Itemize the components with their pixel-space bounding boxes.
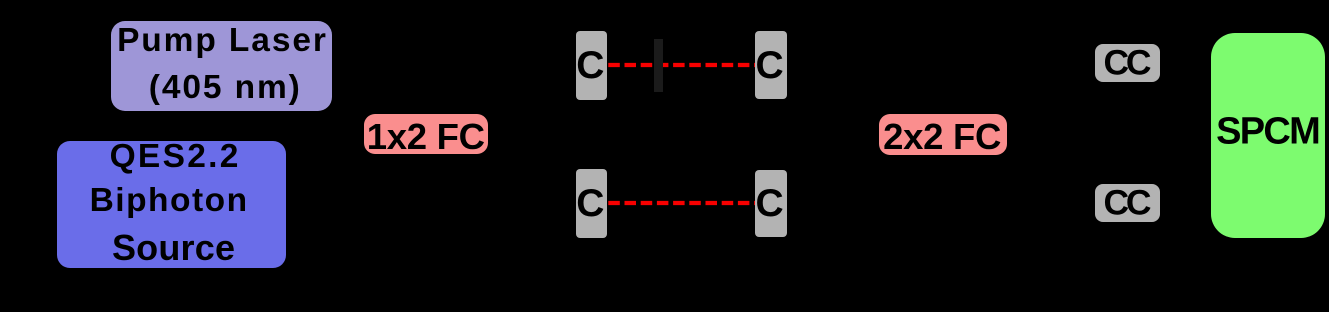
box QES2.2 Biphoton Source: [57, 141, 286, 268]
coupler 2x2 FC: [879, 114, 1007, 154]
collimator C bottom-left: [576, 169, 607, 238]
coupler 1x2 FC: [364, 114, 488, 154]
counter CC bottom: [1095, 184, 1160, 222]
box SPCM: [1211, 33, 1325, 239]
filter bar: [654, 39, 663, 93]
box Pump Laser (405 nm): [111, 21, 332, 111]
fiber bottom (red dashed): [607, 198, 756, 208]
collimator C top-left: [576, 31, 607, 100]
fiber top (red dashed): [607, 60, 756, 70]
collimator C bottom-right: [755, 170, 787, 238]
collimator C top-right: [755, 31, 787, 99]
counter CC top: [1095, 44, 1160, 82]
